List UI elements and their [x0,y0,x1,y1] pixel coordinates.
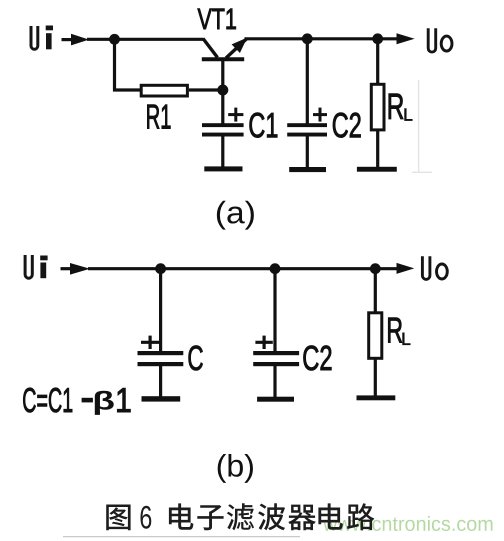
wire RL to ground (a) [376,130,379,169]
wire C2 drop (b) [273,269,276,352]
wire RL drop (a) [376,39,379,84]
caption char 波 [258,503,285,530]
caption char 滤 [227,503,254,530]
label RL (b) [388,318,402,343]
ground C (b) [142,396,181,401]
label R1 [147,105,170,129]
label RL subscript L (a) [405,109,413,121]
input arrow (b) [61,263,91,275]
wire C2 drop (a) [306,39,309,124]
capacitor C2 (b) [253,351,299,366]
wire C1 to ground [221,137,224,169]
label C (b) [189,346,203,371]
node C2 junction (a) [302,33,313,44]
wire RL drop (b) [374,269,377,312]
label RL (a) [389,94,404,119]
label Uo letter o (output b) [437,264,448,279]
ground RL (b) [357,395,396,400]
wire C2 to ground (a) [306,137,309,170]
caption char 电2 [318,503,343,529]
label Ui letter i (input a) [46,26,53,50]
label Ui letter i (input b) [40,256,47,279]
resistor RL (b) [369,313,382,359]
caption char 路 [347,503,374,530]
capacitor C (b) [138,351,184,366]
capacitor C1 [202,123,244,136]
node RL junction (b) [370,263,381,274]
wire top rail (b) [88,267,397,270]
caption char 器 [288,505,316,531]
label (b) [218,454,253,483]
ground RL (a) [357,167,397,172]
label Ui letter U (input a) [31,26,38,49]
label C2 (a) [333,113,361,138]
node RL junction (a) [372,33,383,44]
equation C=C1 [23,388,72,412]
polarity plus C2 (b) [255,336,272,349]
output arrow (a) [397,33,415,44]
label VT1 [198,9,236,29]
wire C to ground (b) [159,366,162,398]
caption char 图 [106,505,130,531]
node C junction (b) [155,263,166,274]
wire RL to ground (b) [374,358,377,397]
transistor VT1 [202,39,247,60]
caption char 子 [197,505,223,530]
label Uo letter U (output b) [422,256,430,279]
wire input to collector (a top rail left) [87,38,204,41]
label (a) [217,201,254,230]
wire R1 to base node [189,88,223,91]
watermark www.cntronics.com [323,516,492,531]
label C1 [250,113,278,138]
capacitor C2 (a) [287,123,327,136]
equation multiply dash [82,398,93,403]
wire base node to C1 [221,90,224,124]
label Uo letter o (output a) [441,36,452,51]
wire C2 to ground (b) [273,366,276,398]
equation beta [95,391,114,415]
equation trailing 1 [117,388,130,412]
caption underline [63,536,300,538]
ground C2 (a) [289,167,326,172]
caption char 电 [169,503,194,529]
input arrow (a) [62,34,90,46]
ground C1 [204,166,242,171]
resistor RL (a) [371,84,384,130]
wire emitter to output (a top rail right) [245,37,398,40]
label Ui letter U (input b) [25,255,32,278]
node base junction [217,85,228,96]
polarity plus C1 [228,108,243,122]
label Uo letter U (output a) [428,28,436,52]
wire input drop to R1 [113,39,116,91]
node input junction (a) [109,34,120,45]
polarity plus C2 (a) [313,108,327,122]
wire C drop (b) [159,269,162,352]
wire to R1 left [113,88,141,91]
faint scan line [412,80,432,172]
wire base stem [221,61,224,91]
transistor emitter arrowhead [232,38,248,53]
node C2 junction (b) [270,263,281,274]
output arrow (b) [397,263,415,274]
label RL subscript L (b) [403,333,411,345]
polarity plus C (b) [141,336,159,349]
ground C2 (b) [257,397,294,402]
resistor R1 [141,85,187,96]
caption digit 6 [140,506,151,529]
label C2 (b) [303,346,331,371]
